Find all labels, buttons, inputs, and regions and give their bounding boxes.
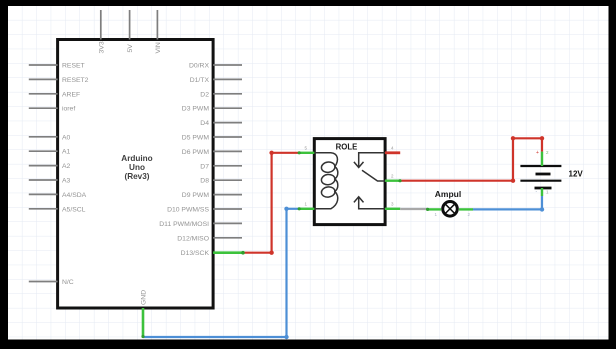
svg-text:D10 PWM/SS: D10 PWM/SS [167, 207, 209, 214]
svg-text:A0: A0 [62, 134, 71, 141]
junction dot green at relay pin 1 end (298.8,208.8) [298, 207, 301, 210]
junction dot red at wire bend (513,180.7) [511, 179, 515, 183]
svg-text:Ampul: Ampul [435, 189, 461, 199]
relay pin 5 (connected, green) [299, 152, 315, 154]
svg-text:D2: D2 [200, 91, 209, 98]
junction dot green at relay pin 2 end (400,180.7) [398, 179, 401, 182]
svg-text:A3: A3 [62, 178, 71, 185]
svg-text:12V: 12V [569, 170, 584, 179]
U1 top pin VIN [156, 10, 158, 40]
lamp LA1 body (circle with X) [443, 202, 458, 217]
svg-text:Arduino: Arduino [121, 154, 152, 163]
svg-text:AREF: AREF [62, 91, 80, 98]
junction dot blue at wire bend (286.5,208.8) [284, 207, 288, 211]
svg-text:D8: D8 [200, 178, 209, 185]
battery BT1 negative pin (connected, green) [541, 188, 543, 196]
U1 left pin labels [62, 63, 89, 287]
lamp pin 1 (connected, green) [427, 208, 441, 210]
svg-text:D4: D4 [200, 120, 209, 127]
svg-text:+: + [536, 150, 539, 156]
relay pin 2 (connected, green) [385, 179, 400, 181]
svg-text:D13/SCK: D13/SCK [181, 250, 210, 257]
IC U1 Arduino Uno (Rev3) body [58, 40, 214, 309]
U1 left pin stubs [29, 65, 58, 282]
svg-text:N/C: N/C [62, 279, 74, 286]
U1 GND pin (green highlight, bottom) [142, 308, 145, 337]
svg-text:A5/SCL: A5/SCL [62, 206, 86, 213]
svg-text:D0/RX: D0/RX [189, 63, 209, 70]
svg-text:GND: GND [141, 290, 148, 305]
relay pin 4 (unconnected, red) [385, 151, 400, 154]
svg-text:RESET: RESET [62, 63, 85, 70]
svg-text:D12/MISO: D12/MISO [177, 235, 209, 242]
relay switch moving contact (diagonal to pin 2) [362, 170, 385, 181]
wire U1 GND to relay pin 1 (blue) [143, 209, 299, 337]
svg-text:D7: D7 [200, 163, 209, 170]
junction dot green at relay pin 5 end (298.8,152.8) [298, 151, 301, 154]
battery BT1 positive pin (connected, green) [541, 152, 543, 166]
wire lamp pin 2 to battery - (blue) [473, 196, 542, 209]
svg-text:(Rev3): (Rev3) [124, 172, 149, 181]
junction dot blue at wire bend (286.5,337) [284, 335, 288, 339]
relay switch line (pin 3) [359, 197, 385, 209]
U1 part label Arduino Uno (Rev3) [121, 154, 152, 181]
svg-text:ioref: ioref [62, 106, 75, 113]
lamp pin 2 (connected, green) [459, 208, 473, 210]
relay pin 1 (connected, green) [299, 208, 315, 210]
wire relay pin 2 to battery + (red) [400, 138, 542, 180]
svg-text:D3 PWM: D3 PWM [182, 106, 210, 113]
junction dot red at wire bend (271.6,252.7) [269, 251, 273, 255]
junction dot red at wire bend (513,138.3) [511, 136, 515, 140]
U1 top pin labels [98, 41, 162, 53]
svg-text:D1/TX: D1/TX [190, 77, 210, 84]
relay switch arrow down (open chevron) [354, 162, 364, 168]
U1 top pin 5V [129, 10, 131, 40]
relay pin 3 (connected, green) [385, 208, 400, 210]
U1 top pin 3V3 [100, 10, 102, 40]
U1 right pin labels [159, 63, 209, 258]
U1 right pin stubs [213, 65, 242, 238]
svg-text:VIN: VIN [155, 42, 162, 53]
junction dot green at D13 pin end (243,252.7) [241, 251, 245, 255]
svg-text:D6 PWM: D6 PWM [182, 149, 210, 156]
svg-text:Uno: Uno [129, 163, 145, 172]
svg-text:D9 PWM: D9 PWM [182, 192, 210, 199]
wire relay pin 3 to lamp pin 1 (gray) [400, 208, 427, 210]
wire U1 D13/SCK to relay pin 5 (red) [243, 153, 299, 253]
junction dot blue at wire bend (542,209.4) [540, 207, 544, 211]
junction dot green at lamp pin 1 end (427.3,209.4) [426, 208, 429, 211]
junction dot green at GND pin end (143,337) [141, 335, 144, 338]
relay K1 ROLE body [314, 139, 385, 225]
relay switch arrow up (open chevron) [354, 197, 364, 203]
relay coil [314, 153, 338, 209]
battery BT1 plates [520, 166, 561, 188]
svg-text:ROLE: ROLE [336, 142, 358, 151]
svg-text:5V: 5V [127, 44, 134, 53]
junction dot red at wire bend (271.6,152.8) [269, 151, 273, 155]
junction dot red at wire bend (542,138.3) [540, 136, 544, 140]
relay switch common line (pin 4) [359, 153, 385, 168]
svg-text:A1: A1 [62, 149, 71, 156]
svg-text:A2: A2 [62, 163, 71, 170]
svg-text:D11 PWM/MOSI: D11 PWM/MOSI [159, 221, 209, 228]
svg-text:A4/SDA: A4/SDA [62, 192, 87, 199]
svg-text:D5 PWM: D5 PWM [182, 135, 210, 142]
svg-text:RESET2: RESET2 [62, 77, 89, 84]
U1 pin D13/SCK connected (green highlight) [213, 251, 243, 254]
svg-text:3V3: 3V3 [98, 41, 105, 53]
